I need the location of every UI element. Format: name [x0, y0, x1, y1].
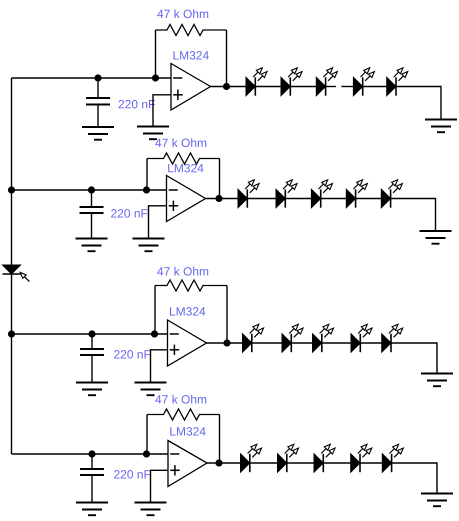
- wire: stage 2 LED chain to ground: [391, 199, 436, 232]
- op-amp stage 3 non-inverting input sign: [170, 345, 180, 355]
- op-amp U1 stage 3 (LM324): [168, 320, 207, 366]
- junction: capacitor C4 tap on input net: [88, 450, 95, 457]
- wire: stage 4 non-inverting input to ground: [151, 470, 169, 502]
- ground: capacitor C1: [82, 127, 114, 140]
- wire: LED chain segment stage 4 #4: [360, 462, 382, 464]
- wire: stage 3 output net (op-amp to first LED): [207, 342, 243, 344]
- junction: capacitor C2 tap on input net: [88, 186, 95, 193]
- LED D3: [316, 66, 339, 96]
- LED D8: [311, 178, 334, 208]
- capacitor C3 220nF: [80, 334, 104, 383]
- label U1 stage 1: LM324: [173, 51, 208, 59]
- wire: stage 4 LED chain to ground: [392, 463, 437, 494]
- LED D6: [238, 178, 261, 208]
- resistor R2 47k feedback: [147, 153, 220, 164]
- wire: stage 1 input net (rail to U1 pin -): [12, 77, 172, 79]
- LED D7: [276, 178, 299, 208]
- junction: stage 4 output / feedback: [215, 459, 222, 466]
- LED D18: [314, 443, 337, 473]
- wire: LED chain segment stage 2 #2: [285, 198, 311, 200]
- wire: stage 2 input net (rail to U1 pin -): [12, 189, 167, 191]
- photodiode PD1 incoming light arrow: [19, 271, 32, 284]
- capacitor C2 220nF: [80, 190, 104, 239]
- op-amp stage 2 non-inverting input sign: [169, 201, 179, 211]
- junction: feedback / input node stage 4: [143, 450, 150, 457]
- label C3 value: 220 nF: [114, 350, 150, 358]
- ground: stage 3 non-inverting input: [135, 383, 167, 396]
- label U1 stage 4: LM324: [170, 427, 205, 435]
- capacitor C1 220nF: [86, 78, 110, 127]
- wire: R2 right lead down to output node: [219, 159, 221, 199]
- op-amp U1 stage 1 (LM324): [171, 64, 211, 111]
- wire: LED chain segment stage 1 #4: [363, 86, 387, 88]
- label U1 stage 2: LM324: [168, 164, 203, 172]
- resistor R4 47k feedback: [147, 409, 220, 420]
- op-amp stage 1 non-inverting input sign: [173, 90, 183, 100]
- LED D10: [381, 178, 404, 208]
- wire: stage 1 LED chain to ground: [396, 87, 441, 120]
- wire: LED chain segment stage 4 #1: [250, 462, 278, 464]
- ground: stage 1 non-inverting input: [137, 127, 169, 140]
- wire: R1 right lead down to output node: [226, 30, 228, 87]
- ground: stage 4 non-inverting input: [135, 503, 167, 516]
- wire: left rail from V+ node down (vertical bus): [11, 78, 13, 454]
- LED D17: [278, 443, 301, 473]
- op-amp stage 3 inverting input sign: [170, 333, 179, 335]
- wire: stage 1 non-inverting input to ground: [153, 95, 171, 127]
- ground: stage 1 LED chain return: [425, 120, 457, 133]
- wire: LED chain segment stage 3 #2: [291, 342, 312, 344]
- op-amp U1 stage 4 (LM324): [168, 441, 207, 487]
- LED D1: [246, 66, 269, 96]
- LED D5: [387, 66, 410, 96]
- LED D20: [382, 443, 405, 473]
- LED D16: [241, 443, 264, 473]
- label C2 value: 220 nF: [111, 209, 147, 217]
- label U1 stage 3: LM324: [170, 307, 205, 315]
- LED D15: [382, 323, 405, 353]
- LED D12: [282, 323, 305, 353]
- wire: R4 left lead down to input node: [146, 415, 148, 455]
- wire: R3 right lead down to output node: [226, 286, 228, 344]
- wire: stage 3 LED chain to ground: [391, 343, 437, 374]
- wire: LED chain segment stage 3 #3: [322, 342, 351, 344]
- wire: stage 2 output net (op-amp to first LED): [206, 198, 239, 200]
- resistor R1 47k feedback: [156, 25, 227, 36]
- wire: LED chain segment stage 1 #1: [255, 86, 281, 88]
- label R1 value: 47 k Ohm: [157, 9, 208, 18]
- LED D14: [351, 323, 374, 353]
- label R2 value: 47 k Ohm: [155, 138, 206, 147]
- LED D19: [351, 443, 374, 473]
- junction: stage 3 output / feedback: [223, 339, 230, 346]
- junction: feedback / input node stage 2: [143, 186, 150, 193]
- op-amp stage 4 inverting input sign: [170, 453, 179, 455]
- wire: LED chain segment stage 3 #1: [252, 342, 282, 344]
- wire: LED chain segment stage 2 #1: [247, 198, 276, 200]
- label R4 value: 47 k Ohm: [155, 395, 206, 404]
- ground: stage 2 LED chain return: [420, 231, 452, 244]
- junction: stage 2 output / feedback: [215, 195, 222, 202]
- LED D11: [243, 323, 266, 353]
- capacitor C4 220nF: [80, 454, 104, 503]
- junction: capacitor C1 tap on input net: [94, 74, 101, 81]
- photodiode PD1 (on left rail): [3, 265, 21, 274]
- resistor R3 47k feedback: [155, 280, 227, 291]
- op-amp stage 2 inverting input sign: [169, 189, 178, 191]
- wire: LED chain segment stage 2 #4: [356, 198, 382, 200]
- LED D13: [313, 323, 336, 353]
- junction: capacitor C3 tap on input net: [88, 330, 95, 337]
- wire: R2 left lead down to input node: [146, 159, 148, 191]
- wire: LED chain segment stage 2 #3: [321, 198, 347, 200]
- wire: LED chain segment stage 4 #3: [323, 462, 350, 464]
- wire: R1 left lead down to input node: [155, 30, 157, 78]
- wire: stage 4 input net (rail to U1 pin -): [12, 453, 169, 455]
- ground: stage 3 LED chain return: [421, 374, 453, 387]
- junction: feedback / input node stage 1: [152, 74, 159, 81]
- ground: capacitor C2: [76, 239, 108, 252]
- op-amp U1 stage 2 (LM324): [167, 176, 206, 222]
- wire: stage 2 non-inverting input to ground: [149, 206, 167, 239]
- wire: stage 1 output net (op-amp to first LED): [211, 86, 247, 88]
- ground: capacitor C3: [76, 383, 108, 396]
- LED D2: [281, 66, 304, 96]
- wire: stage 3 non-inverting input to ground: [151, 350, 168, 383]
- wire: LED chain segment stage 4 #2: [287, 462, 314, 464]
- label R3 value: 47 k Ohm: [157, 267, 208, 276]
- LED D4: [353, 66, 376, 96]
- LED D9: [346, 178, 369, 208]
- junction: rail / stage 3 input: [8, 330, 15, 337]
- ground: stage 4 LED chain return: [421, 494, 453, 507]
- wire: LED chain segment stage 3 #4: [360, 342, 381, 344]
- op-amp stage 4 non-inverting input sign: [170, 465, 180, 475]
- wire: stage 4 output net (op-amp to first LED): [207, 462, 241, 464]
- wire: R4 right lead down to output node: [219, 415, 221, 464]
- junction: rail / stage 2 input: [8, 186, 15, 193]
- label C1 value: 220 nF: [119, 100, 155, 108]
- ground: capacitor C4: [76, 503, 108, 516]
- wire: LED chain segment stage 1 #3 (with gap): [326, 86, 354, 88]
- junction: stage 1 output / feedback: [223, 83, 230, 90]
- wire: stage 3 input net (rail to U1 pin -): [12, 333, 168, 335]
- ground: stage 2 non-inverting input: [133, 239, 165, 252]
- wire: LED chain segment stage 1 #2: [290, 86, 316, 88]
- junction: feedback / input node stage 3: [151, 330, 158, 337]
- wire: R3 left lead down to input node: [154, 286, 156, 335]
- op-amp stage 1 inverting input sign: [173, 77, 182, 79]
- label C4 value: 220 nF: [114, 470, 150, 478]
